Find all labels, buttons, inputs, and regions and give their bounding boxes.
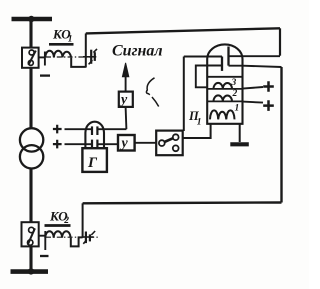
capacitor C2 arrow tick (91, 231, 95, 235)
generator G box (82, 148, 107, 172)
wire: relay out to winding 1 (183, 124, 211, 138)
contact circle (28, 240, 33, 245)
G plate row1 left (91, 126, 93, 135)
wire: G row2 out to U2 (97, 143, 118, 145)
coil L1 left lead (44, 52, 46, 66)
capacitor C1 arrow tick (93, 49, 97, 53)
signal arrowhead (122, 63, 128, 77)
tube plate A lead (184, 56, 222, 58)
relay contact circle left (159, 140, 165, 146)
wire: box1 to transformer (29, 68, 32, 129)
bottom busbar (11, 269, 49, 274)
junction dot bottom (28, 268, 34, 274)
minus dash under L1 (40, 74, 50, 76)
bottom long wire (83, 201, 282, 204)
winding 1 (210, 110, 235, 119)
relay blade (164, 138, 173, 142)
wire: plus2 to generator plate (65, 143, 93, 145)
tube P1 outline (207, 44, 242, 123)
label KO1 underline (49, 43, 74, 46)
wire: coil L2 down-step (71, 237, 83, 246)
wire: loop from tube plate A down (183, 57, 185, 132)
amplifier U1 box (119, 92, 133, 107)
capacitor C1 arrow tick (89, 60, 93, 64)
transformer T1 circle 1 (20, 128, 43, 151)
tube plate B (227, 47, 229, 66)
relay contact circle lower (173, 145, 179, 151)
wire: U1 down to generator lead (125, 107, 128, 129)
capacitor C2 plate (85, 232, 87, 244)
wire: coil L1 down-step (71, 58, 86, 67)
contact blade (28, 51, 35, 65)
plus sign 2 (transformer output) (53, 140, 62, 149)
minus dash under L2 (40, 255, 49, 257)
contact circle (28, 60, 33, 65)
coil L1 (KO1) (45, 51, 71, 58)
label KO2 underline (45, 224, 71, 227)
wire: transformer to switch box 2 (29, 169, 32, 223)
wire: winding3 to plus (243, 87, 264, 89)
small loop rect left of tube (196, 66, 222, 88)
wire: riser to top wire (85, 33, 87, 67)
capacitor C1 plate (90, 50, 92, 64)
amplifier U2 box (118, 135, 135, 151)
svg-text:у: у (120, 136, 129, 151)
plus terminal 3 (263, 81, 274, 92)
plus terminal 2 (263, 100, 274, 111)
svg-text:у: у (119, 93, 128, 108)
svg-text:3: 3 (231, 78, 237, 88)
wire: plus1 to generator plate (65, 128, 93, 130)
right drop to tube plate lead (279, 28, 281, 55)
squiggle mark (146, 78, 158, 107)
tube plate A (221, 57, 223, 71)
signal arrow shaft (125, 72, 127, 91)
tube separator line (207, 76, 242, 78)
ground bar (230, 142, 249, 146)
winding 2 lead line (207, 100, 242, 102)
winding 2 (214, 95, 233, 101)
winding 3 (214, 83, 233, 89)
svg-text:1: 1 (235, 104, 240, 114)
contact circle (29, 50, 34, 55)
wire: tube to ground (239, 124, 241, 142)
svg-text:Сигнал: Сигнал (112, 43, 163, 60)
coil L2 left lead (44, 231, 46, 250)
top busbar (12, 17, 53, 22)
wire: box1 to coil L1 (39, 56, 45, 58)
capacitor C1 stub (83, 56, 96, 58)
capacitor C2 arrow tick (83, 240, 86, 244)
wire: riser to bottom long wire (82, 203, 84, 238)
junction dot top (28, 16, 34, 22)
contact blade (28, 228, 35, 245)
disconnector box 2 (22, 222, 39, 246)
transformer T1 circle 2 (20, 145, 43, 168)
disconnector box 1 (22, 48, 39, 68)
G plate row2 right (96, 140, 98, 148)
capacitor C2 plate (89, 234, 91, 241)
wire: winding2 to plus (243, 102, 264, 103)
G plate row1 right (96, 126, 98, 135)
contact circle (29, 227, 34, 232)
svg-text:1: 1 (197, 117, 202, 127)
plus sign 1 (transformer output) (53, 125, 62, 134)
G plate row2 left (91, 140, 93, 148)
relay contact box P1 (156, 131, 183, 156)
wire: busbar to switch box 1 (29, 20, 32, 48)
tube lower lead out right (229, 66, 282, 67)
capacitor C1 plate (94, 52, 96, 61)
svg-text:Г: Г (87, 155, 98, 171)
relay contact circle upper right (173, 134, 179, 140)
dash-dot core axis KO1 (46, 56, 90, 58)
wire: box2 to bottom busbar (29, 247, 32, 270)
generator G dome (85, 122, 104, 148)
dash-dot core axis KO2 (46, 236, 99, 238)
coil L2 (KO2) (45, 231, 70, 238)
winding 3 lead line (207, 88, 242, 90)
wire: G row1 out to U1 riser (97, 128, 126, 130)
right outer wire down (280, 67, 282, 203)
capacitor C2 stub (83, 236, 94, 238)
wire: box2 to coil L2 (40, 235, 46, 237)
wire: U2 to relay contact (135, 142, 156, 144)
top wire to the right (86, 28, 280, 33)
svg-text:2: 2 (232, 89, 238, 99)
tube plate B lead out (229, 55, 281, 57)
